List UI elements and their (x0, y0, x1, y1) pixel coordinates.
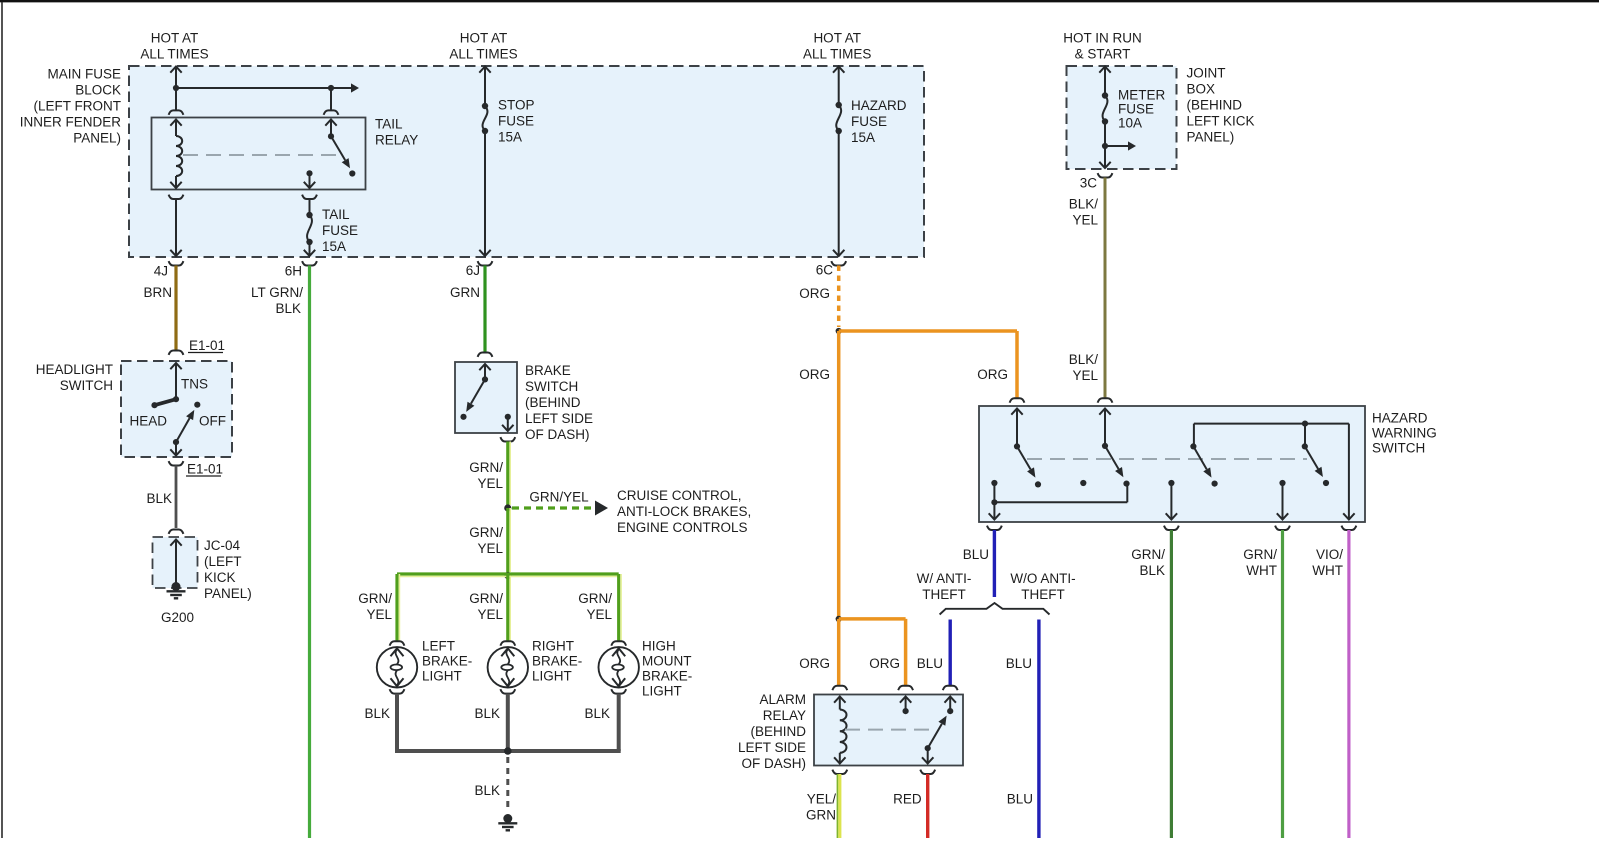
svg-text:THEFT: THEFT (1021, 587, 1065, 602)
headlight switch input pin TNS (170, 363, 181, 402)
label HAZARD WARNING SWITCH (1372, 411, 1437, 456)
svg-text:ENGINE CONTROLS: ENGINE CONTROLS (617, 520, 748, 535)
connector E1-01 top (169, 351, 184, 355)
connector above right brake-light (500, 641, 515, 645)
svg-text:6C: 6C (816, 262, 834, 277)
label HOT AT ALL TIMES (main fuse block left) (140, 30, 208, 61)
svg-text:GRN: GRN (806, 807, 836, 822)
label HOT IN RUN & START (1063, 30, 1142, 61)
svg-text:PANEL): PANEL) (204, 586, 252, 601)
svg-text:BRAKE-: BRAKE- (532, 654, 582, 669)
svg-text:(BEHIND: (BEHIND (750, 724, 806, 739)
label W/O ANTI- THEFT (1010, 571, 1075, 602)
connector below hazard switch BLU (987, 526, 1002, 530)
svg-text:YEL: YEL (477, 476, 503, 491)
svg-text:HIGH: HIGH (642, 639, 676, 654)
hazard switch BLU output pin (989, 502, 1000, 519)
svg-text:BRAKE: BRAKE (525, 363, 571, 378)
wire: HOT AT ALL TIMES feed into hazard fuse (833, 67, 844, 106)
svg-text:(LEFT FRONT: (LEFT FRONT (34, 99, 122, 114)
label CRUISE CONTROL, ANTI-LOCK BRAKES, ENGINE CONTROLS (617, 488, 751, 535)
svg-text:W/ ANTI-: W/ ANTI- (917, 571, 972, 586)
svg-text:TAIL: TAIL (322, 207, 350, 222)
hazard switch pole 2 arrow (1105, 446, 1130, 487)
wire GRN/YEL brake switch output (508, 442, 510, 506)
wire BRN (headlight feed) (174, 266, 177, 351)
hazard switch pin 2 (BLK/YEL) (1099, 409, 1110, 450)
junction to cruise control branch (504, 504, 511, 511)
hazard warning switch box (979, 406, 1365, 522)
svg-text:LEFT SIDE: LEFT SIDE (738, 740, 806, 755)
svg-text:ANTI-LOCK BRAKES,: ANTI-LOCK BRAKES, (617, 504, 751, 519)
svg-text:HOT AT: HOT AT (460, 30, 508, 45)
svg-text:15A: 15A (498, 129, 522, 144)
svg-text:RIGHT: RIGHT (532, 639, 574, 654)
svg-text:BLU: BLU (1006, 656, 1032, 671)
wire VIO/WHT run (1347, 530, 1350, 838)
svg-text:GRN/: GRN/ (578, 591, 612, 606)
svg-text:FUSE: FUSE (498, 113, 534, 128)
svg-text:MOUNT: MOUNT (642, 654, 692, 669)
wire GRN/YEL drop to right brake light (508, 576, 510, 642)
svg-text:LIGHT: LIGHT (532, 669, 572, 684)
svg-text:YEL: YEL (477, 541, 503, 556)
alarm relay pin 2 stub (900, 697, 911, 715)
ground G200 (167, 582, 186, 598)
label GRN/ BLK (1131, 547, 1165, 578)
wire GRN/BLK run (1170, 530, 1173, 838)
main fuse block box (dashed) (129, 66, 924, 257)
label RIGHT BRAKE- LIGHT (532, 639, 582, 684)
label JC-04 (LEFT KICK PANEL) (204, 538, 252, 601)
hazard switch pin 1 (ORG) (1011, 409, 1022, 450)
svg-text:LIGHT: LIGHT (422, 669, 462, 684)
svg-text:GRN: GRN (450, 285, 480, 300)
svg-text:BOX: BOX (1187, 82, 1216, 97)
svg-text:(BEHIND: (BEHIND (1187, 98, 1243, 113)
meter fuse 10A (1102, 92, 1108, 146)
label VIO/ WHT (1312, 547, 1343, 578)
connector 6H (302, 261, 317, 265)
wire BLK/YEL meter fuse to hazard switch (1104, 178, 1107, 399)
wire RED from alarm relay (926, 774, 929, 838)
svg-text:YEL: YEL (477, 607, 503, 622)
connector JC-04 top (169, 530, 184, 534)
label BLK/ YEL upper (1069, 196, 1099, 227)
svg-text:LEFT: LEFT (422, 639, 455, 654)
junction ground bus (504, 747, 512, 755)
brake switch wiper arrow (460, 379, 485, 420)
connector above hazard switch BLK/YEL pin (1098, 398, 1113, 402)
wire: meter fuse to 3C terminal (1098, 146, 1113, 178)
label LT GRN/ BLK (251, 285, 303, 316)
label BLK middle (474, 706, 500, 721)
wire BLK headlight to JC-04 (175, 466, 178, 529)
svg-text:BLU: BLU (917, 656, 943, 671)
label ORG (coil) (799, 656, 830, 671)
svg-text:GRN/: GRN/ (1243, 547, 1277, 562)
wire BLU w/ anti-theft to alarm relay (949, 620, 952, 686)
label HOT AT ALL TIMES (stop fuse) (449, 30, 517, 61)
JC-04 joint connector box (dashed) (153, 537, 198, 588)
svg-text:ORG: ORG (977, 367, 1008, 382)
svg-text:PANEL): PANEL) (1187, 130, 1235, 145)
alarm relay output pin (922, 748, 933, 763)
svg-text:LEFT SIDE: LEFT SIDE (525, 411, 593, 426)
tail relay box (152, 118, 366, 190)
wire GRN/YEL distribution bus (397, 574, 619, 576)
bulb right brake-light (488, 647, 528, 687)
svg-text:GRN/: GRN/ (469, 525, 503, 540)
alarm relay box (814, 695, 963, 766)
connector above alarm relay coil (832, 686, 847, 690)
svg-text:ALL TIMES: ALL TIMES (803, 46, 871, 61)
connector 6J (478, 261, 493, 265)
wire LT GRN/BLK (tail lamps feed, runs off page) (308, 266, 311, 839)
label GRN/ YEL middle (469, 591, 503, 622)
label LEFT BRAKE- LIGHT (422, 639, 472, 684)
label MAIN FUSE BLOCK (LEFT FRONT INNER FENDER PANEL) (20, 67, 122, 146)
svg-text:& START: & START (1075, 46, 1131, 61)
connector 6C (831, 261, 846, 265)
label ORG left of main run (799, 367, 830, 382)
label G200 (161, 610, 194, 625)
label BLK bottom (474, 783, 500, 798)
svg-text:G200: G200 (161, 610, 194, 625)
svg-text:HAZARD: HAZARD (851, 98, 907, 113)
label 6J (466, 263, 480, 278)
brake switch box (455, 362, 517, 433)
label ORG below 6C (799, 286, 830, 301)
label BRAKE SWITCH (BEHIND LEFT SIDE OF DASH) (525, 363, 593, 442)
hazard switch pole 4 arrow (1305, 446, 1329, 486)
label BLU (963, 547, 989, 562)
svg-text:BLK: BLK (474, 783, 500, 798)
svg-text:GRN/: GRN/ (469, 460, 503, 475)
label 3C (1080, 175, 1098, 190)
bulb high mount brake-light (599, 647, 639, 687)
svg-text:ORG: ORG (799, 367, 830, 382)
svg-text:BRAKE-: BRAKE- (422, 654, 472, 669)
connector below high mount brake-light (611, 689, 626, 693)
label GRN/YEL (branch) (529, 489, 589, 504)
label ALARM RELAY (BEHIND LEFT SIDE OF DASH) (738, 692, 806, 771)
label E1-01 top (188, 338, 225, 353)
svg-text:BRAKE-: BRAKE- (642, 669, 692, 684)
hazard switch pole 4 link (1302, 424, 1308, 450)
hazard switch lone contact (1080, 480, 1086, 486)
label HOT AT ALL TIMES (hazard fuse) (803, 30, 871, 61)
svg-text:3C: 3C (1080, 175, 1098, 190)
svg-text:YEL: YEL (1072, 368, 1098, 383)
joint box / meter fuse box (dashed) (1067, 66, 1177, 169)
svg-text:6H: 6H (285, 263, 302, 278)
svg-text:HEADLIGHT: HEADLIGHT (36, 362, 113, 377)
junction ORG (836, 328, 842, 334)
wire BLU w/o anti-theft run (1037, 620, 1040, 839)
svg-text:SWITCH: SWITCH (525, 379, 578, 394)
label STOP FUSE 15A (498, 97, 535, 144)
svg-text:HAZARD: HAZARD (1372, 411, 1428, 426)
wire GRN/WHT run (1281, 530, 1284, 838)
hazard switch top-right link (1190, 421, 1349, 450)
label TNS (181, 376, 208, 391)
connector 4J (169, 261, 184, 265)
hazard switch GRN/BLK output pin (1166, 480, 1177, 520)
svg-text:15A: 15A (851, 130, 875, 145)
svg-text:BRN: BRN (143, 285, 172, 300)
label ORG at hazard switch pin (977, 367, 1008, 382)
junction ORG at alarm relay (836, 616, 842, 622)
svg-text:TNS: TNS (181, 376, 208, 391)
label METER FUSE 10A (1118, 88, 1166, 131)
svg-text:SWITCH: SWITCH (1372, 441, 1425, 456)
label BLK (headlight ground wire) (146, 491, 172, 506)
svg-text:STOP: STOP (498, 97, 535, 112)
wire: HOT IN RUN & START feed into meter fuse (1099, 67, 1110, 96)
label BLU bottom (1007, 791, 1033, 806)
connector below alarm relay output (920, 770, 935, 774)
tail relay coil (170, 120, 182, 189)
svg-text:BLK/: BLK/ (1069, 196, 1099, 211)
hazard switch pole 1 arrow (1017, 446, 1041, 487)
svg-text:BLK/: BLK/ (1069, 352, 1099, 367)
wire YEL/GRN from alarm relay (837, 774, 839, 838)
svg-text:(LEFT: (LEFT (204, 554, 242, 569)
svg-text:GRN/: GRN/ (358, 591, 392, 606)
wire: drop from junction to tail relay coil, with connector (169, 88, 184, 115)
tail fuse 15A (304, 212, 315, 256)
brace for anti-theft split (940, 603, 1050, 615)
label GRN/ YEL right (578, 591, 612, 622)
wire GRN/YEL dashed branch to cruise control (512, 506, 594, 509)
page frame top border (0, 0, 1599, 2)
connector above high mount brake-light (611, 641, 626, 645)
svg-text:BLU: BLU (963, 547, 989, 562)
connector below hazard switch GRN/BLK (1164, 526, 1179, 530)
svg-text:PANEL): PANEL) (73, 131, 121, 146)
connector above alarm relay pin 2 (898, 686, 913, 690)
label E1-01 bottom (186, 461, 223, 476)
ground (brake lights) (498, 814, 517, 830)
wire: HOT AT ALL TIMES feed into main fuse block at 4J column (170, 67, 181, 92)
svg-text:BLK: BLK (364, 706, 390, 721)
svg-text:BLU: BLU (1007, 791, 1033, 806)
wire: relay coil to 4J terminal (169, 195, 184, 256)
svg-text:BLK: BLK (146, 491, 172, 506)
svg-text:METER: METER (1118, 88, 1166, 103)
svg-text:THEFT: THEFT (922, 587, 966, 602)
connector below hazard switch GRN/WHT (1275, 526, 1290, 530)
label TAIL FUSE 15A (322, 207, 358, 254)
hazard switch BLU output contact network (991, 480, 1127, 506)
alarm relay switch common (945, 697, 956, 715)
label GRN (450, 285, 480, 300)
label GRN/ YEL (upper) (469, 460, 503, 491)
label 6C (816, 262, 834, 277)
wire GRN/YEL to splice (508, 508, 510, 572)
svg-text:ORG: ORG (869, 656, 900, 671)
svg-text:HEAD: HEAD (130, 413, 168, 428)
svg-text:WHT: WHT (1246, 563, 1277, 578)
tail relay output pin (304, 170, 315, 188)
wire BLK right bulb ground (506, 694, 510, 751)
svg-text:LEFT KICK: LEFT KICK (1187, 114, 1255, 129)
wire ORG dashed segment (837, 266, 841, 328)
wire: HOT AT ALL TIMES feed into stop fuse (479, 67, 490, 107)
label TAIL RELAY (375, 117, 418, 148)
svg-text:YEL: YEL (1072, 212, 1098, 227)
connector above left brake-light (390, 641, 405, 645)
svg-text:W/O ANTI-: W/O ANTI- (1010, 571, 1075, 586)
label 4J (154, 263, 168, 278)
svg-text:E1-01: E1-01 (187, 461, 223, 476)
svg-text:BLK: BLK (1139, 563, 1165, 578)
wire: drop from arrow junction to tail relay switch, with connector (324, 88, 339, 115)
svg-text:INNER FENDER: INNER FENDER (20, 115, 122, 130)
svg-text:(BEHIND: (BEHIND (525, 395, 581, 410)
label RED (893, 791, 922, 806)
label HEADLIGHT SWITCH (36, 362, 113, 393)
svg-text:HOT AT: HOT AT (813, 30, 861, 45)
svg-text:KICK: KICK (204, 570, 236, 585)
label 6H (285, 263, 302, 278)
svg-text:ALL TIMES: ALL TIMES (449, 46, 517, 61)
wire BLK dashed to ground (506, 757, 509, 812)
svg-text:GRN/: GRN/ (1131, 547, 1165, 562)
label W/ ANTI- THEFT (917, 571, 972, 602)
headlight switch OFF contact (194, 402, 200, 408)
svg-text:6J: 6J (466, 263, 480, 278)
hazard switch dashed gang link (1027, 458, 1307, 460)
svg-text:TAIL: TAIL (375, 117, 403, 132)
svg-text:FUSE: FUSE (851, 114, 887, 129)
connector E1-01 bottom (169, 461, 184, 465)
headlight switch wiper arrow (176, 410, 194, 442)
connector below hazard switch VIO/WHT (1342, 526, 1357, 530)
svg-text:OF DASH): OF DASH) (741, 756, 806, 771)
svg-text:FUSE: FUSE (1118, 102, 1154, 117)
wire BLK ground bus (395, 749, 621, 753)
label YEL/ GRN (806, 791, 836, 822)
hazard switch pole 3 arrow (1193, 446, 1217, 486)
label BLK right (584, 706, 610, 721)
svg-text:GRN/YEL: GRN/YEL (529, 489, 589, 504)
svg-text:JC-04: JC-04 (204, 538, 241, 553)
headlight switch output pin (170, 439, 181, 456)
meter fuse junction and branch arrow (1102, 141, 1136, 150)
svg-text:E1-01: E1-01 (189, 338, 225, 353)
label HIGH MOUNT BRAKE- LIGHT (642, 639, 692, 699)
svg-text:WARNING: WARNING (1372, 426, 1437, 441)
bulb left brake-light (377, 647, 417, 687)
headlight switch bar to HEAD contact (151, 399, 176, 408)
wire GRN/YEL drop to high mount brake light (619, 574, 621, 641)
hazard switch GRN/WHT output pin (1277, 480, 1288, 520)
svg-text:LIGHT: LIGHT (642, 684, 682, 699)
brake switch input pin (479, 364, 490, 383)
svg-text:YEL: YEL (366, 607, 392, 622)
wire: top distribution arrow inside main fuse block (176, 83, 359, 92)
hazard fuse 15A (833, 102, 844, 256)
svg-text:10A: 10A (1118, 116, 1142, 131)
wire GRN (stop fuse to brake switch) (483, 266, 486, 353)
arrowhead to cruise control (595, 501, 608, 516)
label HAZARD FUSE 15A (851, 98, 907, 145)
wire ORG branch to hazard switch (839, 331, 1017, 398)
hazard switch VIO output run (1343, 424, 1354, 520)
alarm relay switch arrow (925, 716, 947, 752)
alarm relay dashed link (845, 729, 933, 731)
label OFF (199, 413, 226, 428)
wire ORG branch to alarm relay pin 2 (839, 619, 906, 686)
label GRN/ WHT (1243, 547, 1277, 578)
svg-text:OFF: OFF (199, 413, 226, 428)
label BLK left (364, 706, 390, 721)
label BLU w/o anti-theft (1006, 656, 1032, 671)
label GRN/ YEL left (358, 591, 392, 622)
label BRN (143, 285, 172, 300)
svg-text:LT GRN/: LT GRN/ (251, 285, 303, 300)
svg-text:4J: 4J (154, 263, 168, 278)
wire: relay output into tail fuse (302, 195, 317, 215)
svg-text:BLK: BLK (275, 301, 301, 316)
wire GRN/YEL drop to left brake light (397, 574, 399, 641)
connector above brake switch (478, 353, 493, 357)
wire BLU from hazard switch (993, 530, 996, 597)
svg-text:ALARM: ALARM (759, 692, 806, 707)
wire BLK left bulb ground (395, 694, 399, 751)
label BLU w/ anti-theft (917, 656, 943, 671)
connector below left brake-light (390, 689, 405, 693)
splice junction of brake light feeds (504, 572, 511, 579)
svg-text:VIO/: VIO/ (1316, 547, 1343, 562)
stop fuse 15A (479, 103, 490, 256)
svg-text:WHT: WHT (1312, 563, 1343, 578)
label ORG (pin 2) (869, 656, 900, 671)
svg-text:GRN/: GRN/ (469, 591, 503, 606)
connector above hazard switch ORG pin (1010, 398, 1025, 402)
connector below alarm relay coil (832, 770, 847, 774)
svg-text:RELAY: RELAY (375, 133, 418, 148)
svg-text:RED: RED (893, 791, 922, 806)
alarm relay coil (834, 697, 846, 764)
svg-text:SWITCH: SWITCH (60, 378, 113, 393)
tail relay dashed link (183, 154, 336, 156)
label GRN/ YEL (mid) (469, 525, 503, 556)
svg-text:ALL TIMES: ALL TIMES (140, 46, 208, 61)
svg-text:BLK: BLK (584, 706, 610, 721)
page frame left border (1, 2, 3, 838)
tail relay switch (325, 120, 355, 177)
wire BLK high mount ground (617, 694, 621, 751)
svg-text:BLOCK: BLOCK (75, 83, 121, 98)
svg-text:MAIN FUSE: MAIN FUSE (47, 67, 121, 82)
svg-text:HOT AT: HOT AT (151, 30, 199, 45)
label HEAD (130, 413, 168, 428)
connector above alarm relay pin 3 (943, 686, 958, 690)
svg-text:CRUISE CONTROL,: CRUISE CONTROL, (617, 488, 742, 503)
svg-text:ORG: ORG (799, 656, 830, 671)
label BLK/ YEL lower (1069, 352, 1099, 383)
svg-text:ORG: ORG (799, 286, 830, 301)
headlight switch box (dashed) (121, 361, 232, 457)
svg-text:OF DASH): OF DASH) (525, 427, 590, 442)
svg-text:FUSE: FUSE (322, 223, 358, 238)
svg-text:BLK: BLK (474, 706, 500, 721)
svg-text:HOT IN RUN: HOT IN RUN (1063, 30, 1142, 45)
label JOINT BOX (BEHIND LEFT KICK PANEL) (1187, 66, 1255, 145)
